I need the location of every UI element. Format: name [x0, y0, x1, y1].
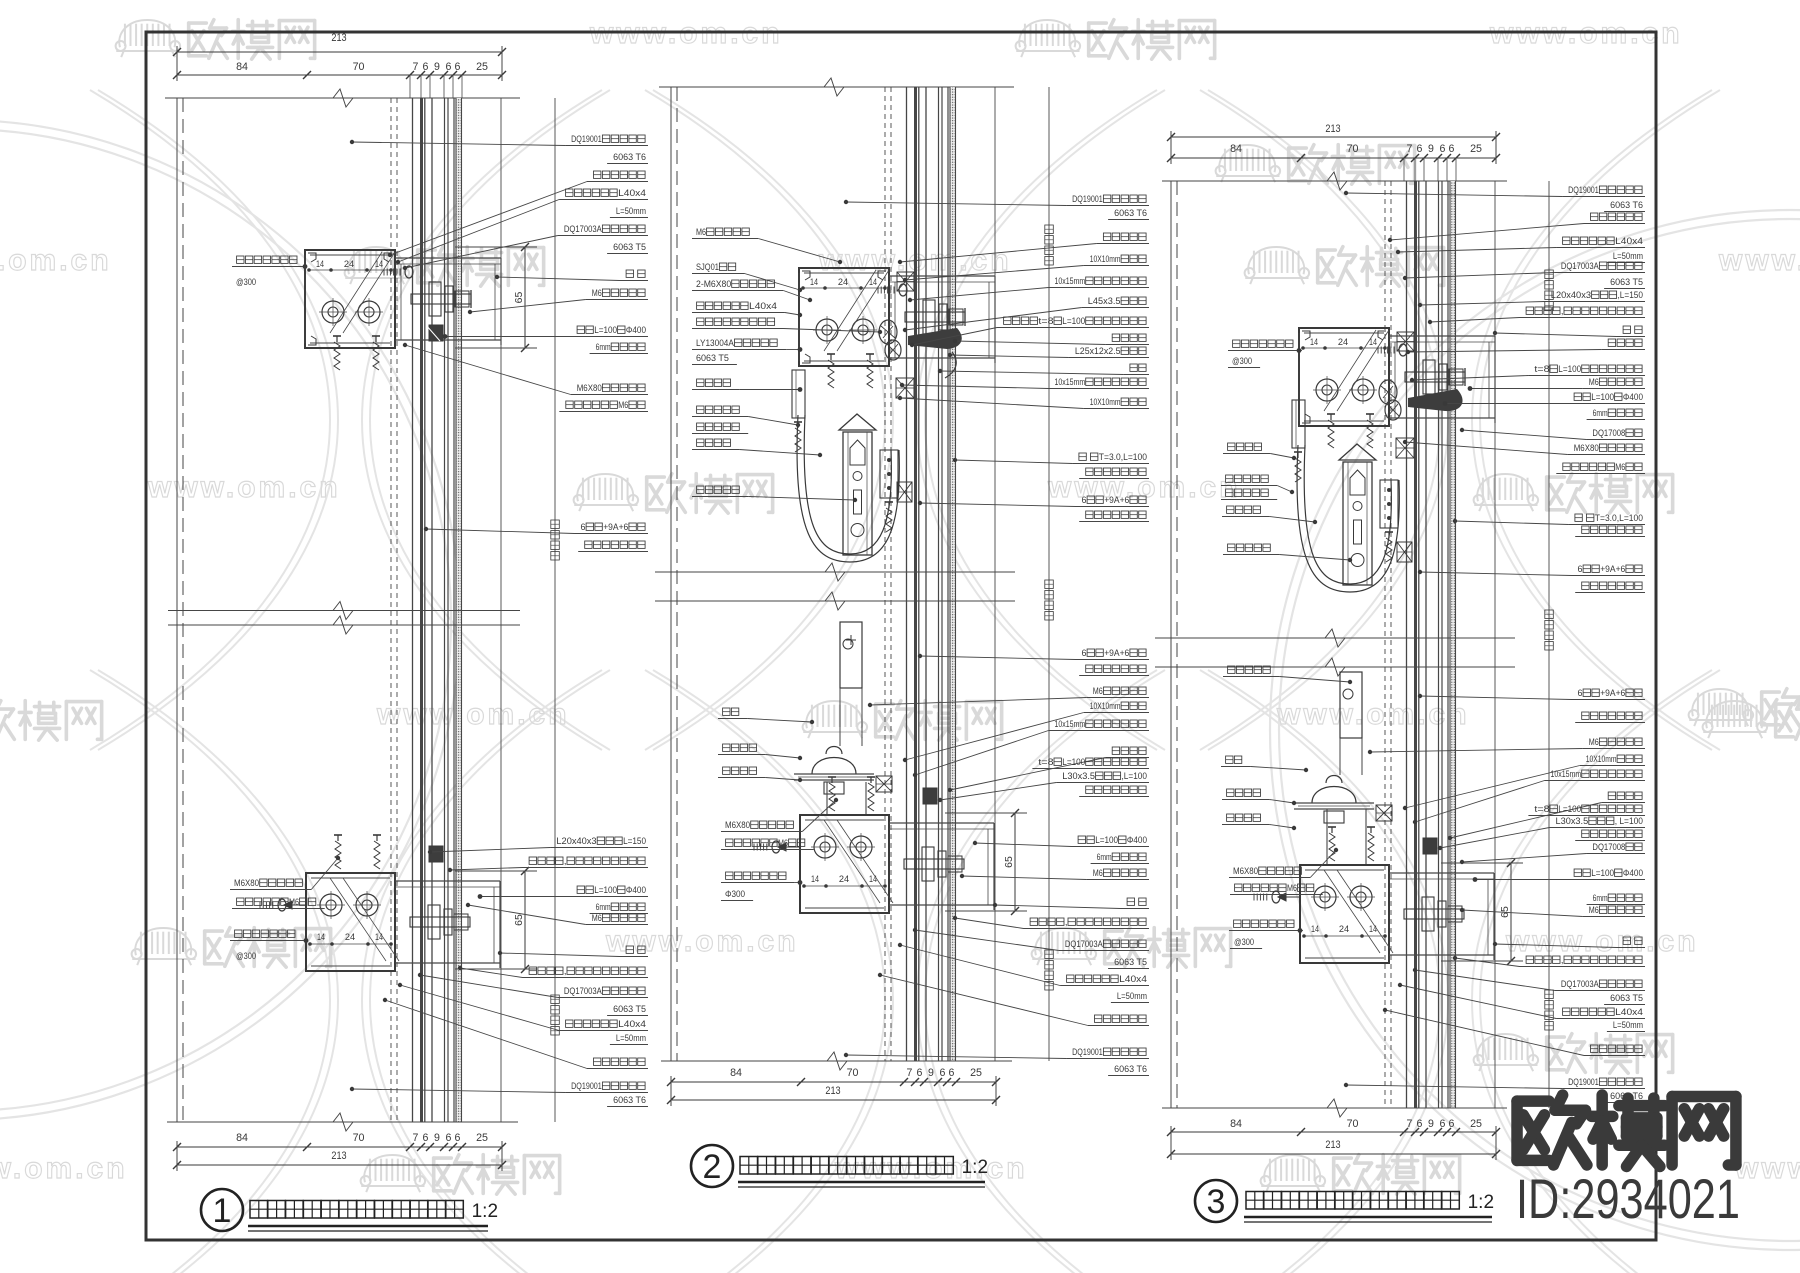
svg-text:70: 70: [1347, 143, 1359, 155]
svg-text:t=8: t=8: [1038, 757, 1053, 767]
svg-text:M6: M6: [778, 838, 788, 848]
svg-text:,: ,: [1561, 306, 1564, 316]
svg-text:L=100: L=100: [1591, 868, 1614, 878]
svg-text:t=8: t=8: [1038, 316, 1053, 326]
top edge line d3: [1162, 180, 1507, 182]
svg-text:14: 14: [1310, 337, 1318, 348]
svg-text:9: 9: [1428, 143, 1434, 155]
svg-text:DQ17008: DQ17008: [1592, 842, 1625, 852]
svg-text:6: 6: [455, 61, 461, 73]
svg-text:2-M6X80: 2-M6X80: [696, 279, 731, 289]
svg-text:+9A+6: +9A+6: [1104, 495, 1129, 505]
svg-text:6mm: 6mm: [1593, 408, 1608, 418]
window sash section: [1292, 400, 1305, 448]
svg-text:65: 65: [513, 292, 525, 304]
foam rods + water wedge d2: [879, 320, 897, 344]
svg-text:6063 T5: 6063 T5: [1610, 277, 1643, 287]
svg-text:25: 25: [1470, 1118, 1482, 1130]
svg-text:6: 6: [455, 1132, 461, 1144]
svg-text:6063 T6: 6063 T6: [613, 152, 646, 162]
svg-text:6: 6: [1578, 688, 1583, 698]
svg-text:6063 T5: 6063 T5: [1610, 993, 1643, 1003]
svg-text:6mm: 6mm: [596, 902, 611, 912]
svg-text:7: 7: [413, 61, 419, 73]
svg-text:T=3.0,L=100: T=3.0,L=100: [1099, 452, 1147, 462]
svg-text:M6: M6: [1093, 868, 1103, 878]
svg-text:L=100: L=100: [1591, 392, 1614, 402]
mullion lines: [1170, 181, 1172, 1108]
svg-text:L=50mm: L=50mm: [1613, 1020, 1643, 1030]
svg-text:10x15mm: 10x15mm: [1055, 276, 1086, 286]
svg-text:L=150: L=150: [623, 836, 646, 846]
svg-text:7: 7: [1407, 1118, 1413, 1130]
svg-text:9: 9: [434, 1132, 440, 1144]
bottom edge line d3: [1162, 1107, 1507, 1109]
svg-text:3: 3: [1207, 1183, 1226, 1221]
svg-text:LY13004A: LY13004A: [696, 338, 735, 348]
svg-text:t=8: t=8: [1534, 804, 1549, 814]
svg-text:www.om.cn: www.om.cn: [147, 471, 341, 504]
svg-text:14: 14: [1311, 924, 1319, 935]
title 1: [201, 1189, 243, 1231]
border frame: [146, 32, 1656, 1240]
svg-text:www.om.cn: www.om.cn: [1734, 1152, 1800, 1185]
svg-text:24: 24: [1338, 337, 1348, 348]
floor break band: [655, 571, 1015, 573]
mullion lines: [176, 98, 178, 1122]
bracket assembly: [1299, 328, 1389, 426]
svg-text:6: 6: [581, 522, 586, 532]
svg-text:DQ17003A: DQ17003A: [564, 224, 603, 234]
svg-text:84: 84: [236, 61, 248, 73]
svg-text:24: 24: [345, 932, 355, 943]
floor break band: [168, 610, 520, 612]
svg-text:6: 6: [949, 1067, 955, 1079]
annotations detail 3 left: [1233, 340, 1240, 347]
svg-text:M6X80: M6X80: [725, 820, 750, 830]
svg-text:L=50mm: L=50mm: [616, 206, 646, 216]
svg-text:L40x4: L40x4: [1119, 974, 1147, 984]
svg-text:6: 6: [446, 61, 452, 73]
svg-text:DQ19001: DQ19001: [571, 1081, 602, 1091]
svg-text:10x15mm: 10x15mm: [1055, 377, 1086, 387]
svg-text:24: 24: [839, 874, 849, 885]
svg-text:6: 6: [1082, 648, 1087, 658]
svg-text:6: 6: [917, 1067, 923, 1079]
svg-text:,: ,: [1065, 917, 1068, 927]
svg-text:14: 14: [810, 277, 818, 288]
watermark big circles: [0, 120, 460, 1120]
svg-text:DQ19001: DQ19001: [1568, 1077, 1599, 1087]
svg-text:84: 84: [1230, 143, 1242, 155]
svg-text:213: 213: [331, 32, 346, 44]
bracket assembly: [799, 268, 889, 366]
svg-text:www.om.cn: www.om.cn: [605, 925, 799, 958]
svg-text:DQ19001: DQ19001: [571, 134, 602, 144]
svg-text:www.om.cn: www.om.cn: [376, 698, 570, 731]
svg-text:L25x12x2.5: L25x12x2.5: [1075, 346, 1121, 356]
svg-text:6mm: 6mm: [1593, 893, 1608, 903]
svg-text:ID:2934021: ID:2934021: [1516, 1167, 1740, 1230]
svg-text:14: 14: [811, 874, 819, 885]
svg-text:14: 14: [1369, 924, 1377, 935]
svg-text:Φ400: Φ400: [626, 325, 646, 335]
svg-text:L30x3.5: L30x3.5: [1062, 771, 1095, 781]
svg-text:DQ17003A: DQ17003A: [564, 986, 603, 996]
svg-text:M6: M6: [618, 400, 628, 410]
svg-text:L40x4: L40x4: [618, 1019, 646, 1029]
watermark arcs: [90, 90, 330, 750]
svg-text:M6: M6: [289, 897, 299, 907]
svg-text:M6: M6: [1589, 377, 1599, 387]
svg-text:6mm: 6mm: [596, 342, 611, 352]
svg-text:65: 65: [1003, 856, 1015, 868]
svg-text:L40x4: L40x4: [749, 301, 777, 311]
svg-text:DQ19001: DQ19001: [1072, 194, 1103, 204]
svg-text:6063 T6: 6063 T6: [1610, 200, 1643, 210]
floor break band: [1155, 637, 1515, 639]
svg-text:10X10mm: 10X10mm: [1090, 254, 1121, 264]
svg-text:M6: M6: [1615, 462, 1625, 472]
svg-text:L20x40x3: L20x40x3: [1551, 290, 1591, 300]
svg-text:213: 213: [331, 1150, 346, 1162]
svg-text:7: 7: [413, 1132, 419, 1144]
svg-text:,: ,: [1561, 955, 1564, 965]
svg-text:6: 6: [423, 1132, 429, 1144]
svg-text:Φ400: Φ400: [626, 885, 646, 895]
svg-text:6063 T5: 6063 T5: [613, 242, 646, 252]
svg-text:14: 14: [869, 874, 877, 885]
svg-text:213: 213: [1325, 123, 1340, 135]
top edge line d1: [165, 97, 520, 99]
svg-text:L=100: L=100: [1062, 757, 1085, 767]
svg-text:,: ,: [564, 966, 567, 976]
svg-text:M6: M6: [592, 288, 602, 298]
svg-text:10X10mm: 10X10mm: [1090, 397, 1121, 407]
svg-text:@300: @300: [1234, 937, 1254, 947]
svg-text:84: 84: [1230, 1118, 1242, 1130]
svg-text:L=100: L=100: [594, 885, 617, 895]
svg-text:DQ17003A: DQ17003A: [1561, 979, 1600, 989]
svg-text:L=50mm: L=50mm: [616, 1033, 646, 1043]
svg-text:6: 6: [1417, 143, 1423, 155]
svg-text:L=100: L=100: [1558, 364, 1581, 374]
svg-text:1:2: 1:2: [472, 1201, 498, 1222]
svg-text:Φ400: Φ400: [1127, 835, 1147, 845]
svg-text:6063 T5: 6063 T5: [613, 1004, 646, 1014]
svg-text:9: 9: [1428, 1118, 1434, 1130]
svg-text:www.om.cn: www.om.cn: [1276, 698, 1470, 731]
svg-text:6: 6: [940, 1067, 946, 1079]
svg-text:L=100: L=100: [1062, 316, 1085, 326]
svg-text:M6: M6: [1093, 686, 1103, 696]
watermark logos: [116, 20, 180, 57]
svg-text:7: 7: [907, 1067, 913, 1079]
svg-text:www.om.cn: www.om.cn: [0, 1152, 128, 1185]
svg-text:DQ17003A: DQ17003A: [1065, 939, 1104, 949]
svg-text:14: 14: [316, 259, 324, 270]
bracket assembly bottom: [306, 873, 395, 971]
svg-text:6: 6: [1440, 143, 1446, 155]
mullion lines: [670, 87, 672, 1061]
svg-text:,L=150: ,L=150: [1618, 290, 1644, 300]
svg-text:L20x40x3: L20x40x3: [556, 836, 596, 846]
svg-text:Φ400: Φ400: [1623, 392, 1643, 402]
svg-text:L=100: L=100: [1095, 835, 1118, 845]
svg-text:10x15mm: 10x15mm: [1055, 719, 1086, 729]
top edge line d2: [659, 86, 1014, 88]
svg-text:M6: M6: [1589, 905, 1599, 915]
svg-text:+9A+6: +9A+6: [1600, 564, 1625, 574]
site logo: [1517, 1095, 1587, 1165]
svg-text:www.om.cn: www.om.cn: [0, 244, 112, 277]
svg-text:70: 70: [353, 61, 365, 73]
svg-text:6: 6: [1417, 1118, 1423, 1130]
svg-text:25: 25: [476, 61, 488, 73]
svg-text:www.om.cn: www.om.cn: [1047, 471, 1241, 504]
svg-text:6063 T5: 6063 T5: [696, 353, 729, 363]
svg-text:6: 6: [446, 1132, 452, 1144]
svg-text:DQ19001: DQ19001: [1568, 185, 1599, 195]
svg-text:DQ17008: DQ17008: [1592, 428, 1625, 438]
svg-text:L40x4: L40x4: [1615, 1007, 1643, 1017]
svg-text:10X10mm: 10X10mm: [1586, 754, 1617, 764]
svg-text:6063 T6: 6063 T6: [1114, 208, 1147, 218]
svg-text:www.om.cn: www.om.cn: [1718, 244, 1800, 277]
svg-text:+9A+6: +9A+6: [1104, 648, 1129, 658]
svg-text:24: 24: [1339, 924, 1349, 935]
svg-text:DQ19001: DQ19001: [1072, 1047, 1103, 1057]
svg-text:M6: M6: [592, 913, 602, 923]
svg-text:6063 T6: 6063 T6: [613, 1095, 646, 1105]
svg-text:6: 6: [1440, 1118, 1446, 1130]
svg-text:Φ300: Φ300: [725, 889, 745, 899]
svg-text:2: 2: [703, 1148, 722, 1186]
svg-text:24: 24: [344, 259, 354, 270]
svg-text:Φ400: Φ400: [1623, 868, 1643, 878]
svg-text:M6: M6: [1287, 883, 1297, 893]
svg-text:7: 7: [1407, 143, 1413, 155]
svg-text:25: 25: [1470, 143, 1482, 155]
svg-text:25: 25: [970, 1067, 982, 1079]
svg-text:+9A+6: +9A+6: [1600, 688, 1625, 698]
svg-text:14: 14: [317, 932, 325, 943]
svg-text:25: 25: [476, 1132, 488, 1144]
svg-text:70: 70: [353, 1132, 365, 1144]
svg-text:6063 T6: 6063 T6: [1114, 1064, 1147, 1074]
svg-text:M6X80: M6X80: [1233, 866, 1258, 876]
svg-text:DQ17003A: DQ17003A: [1561, 261, 1600, 271]
svg-text:6mm: 6mm: [1097, 852, 1112, 862]
svg-text:L=50mm: L=50mm: [1117, 991, 1147, 1001]
svg-text:M6: M6: [696, 227, 706, 237]
svg-text:84: 84: [730, 1067, 742, 1079]
svg-text:L=100: L=100: [1558, 804, 1581, 814]
bottom edge line d2: [661, 1060, 1012, 1062]
svg-text:L=100: L=100: [594, 325, 617, 335]
sash lower connect d2: [826, 782, 828, 815]
svg-text:L40x4: L40x4: [1615, 236, 1643, 246]
svg-text:,: ,: [564, 856, 567, 866]
svg-text:@300: @300: [236, 277, 256, 287]
window sash section: [792, 370, 805, 418]
svg-text:9: 9: [928, 1067, 934, 1079]
svg-text:1:2: 1:2: [1468, 1192, 1494, 1213]
svg-text:24: 24: [838, 277, 848, 288]
svg-text:L=50mm: L=50mm: [1613, 251, 1643, 261]
svg-text:SJQ01: SJQ01: [696, 262, 719, 272]
svg-text:213: 213: [1325, 1139, 1340, 1151]
svg-text:70: 70: [1347, 1118, 1359, 1130]
bracket assembly: [305, 250, 395, 348]
svg-text:L45x3.5: L45x3.5: [1088, 296, 1121, 306]
svg-text:6: 6: [1449, 1118, 1455, 1130]
svg-text:M6X80: M6X80: [577, 383, 602, 393]
svg-text:10X10mm: 10X10mm: [1090, 701, 1121, 711]
svg-text:6: 6: [1082, 495, 1087, 505]
bracket assembly bottom: [1300, 865, 1389, 963]
svg-text:M6: M6: [1589, 737, 1599, 747]
svg-text:L40x4: L40x4: [618, 188, 646, 198]
svg-text:84: 84: [236, 1132, 248, 1144]
bracket assembly bottom: [800, 815, 889, 913]
svg-text:6: 6: [1578, 564, 1583, 574]
bottom edge line d1: [167, 1121, 518, 1123]
handle: [812, 758, 856, 775]
annotations detail 1 left: [237, 256, 244, 263]
svg-text:www.om.cn: www.om.cn: [1505, 925, 1699, 958]
svg-text:1:2: 1:2: [962, 1157, 988, 1178]
svg-text:M6X80: M6X80: [1574, 443, 1599, 453]
svg-text:t=8: t=8: [1534, 364, 1549, 374]
glazing gasket block d1 top: [429, 325, 443, 341]
svg-text:6063 T5: 6063 T5: [1114, 957, 1147, 967]
svg-text:65: 65: [513, 914, 525, 926]
svg-text:213: 213: [825, 1085, 840, 1097]
title 2: [691, 1145, 733, 1187]
svg-text:M6X80: M6X80: [234, 878, 259, 888]
svg-text:,L=100: ,L=100: [1122, 771, 1148, 781]
svg-text:@300: @300: [1232, 356, 1252, 366]
svg-text:T=3.0,L=100: T=3.0,L=100: [1595, 513, 1643, 523]
svg-text:1: 1: [213, 1192, 232, 1230]
svg-text:L30x3.5: L30x3.5: [1556, 816, 1589, 826]
svg-text:14: 14: [375, 932, 383, 943]
svg-text:9: 9: [434, 61, 440, 73]
structural vertical dim line d1: [554, 98, 556, 1122]
svg-text:10x15mm: 10x15mm: [1551, 769, 1582, 779]
svg-text:@300: @300: [236, 951, 256, 961]
svg-text:70: 70: [847, 1067, 859, 1079]
title 3: [1195, 1180, 1237, 1222]
svg-text:, L=100: , L=100: [1615, 816, 1643, 826]
svg-text:6: 6: [1449, 143, 1455, 155]
handle: [1312, 787, 1356, 804]
svg-text:+9A+6: +9A+6: [603, 522, 628, 532]
svg-text:6: 6: [423, 61, 429, 73]
